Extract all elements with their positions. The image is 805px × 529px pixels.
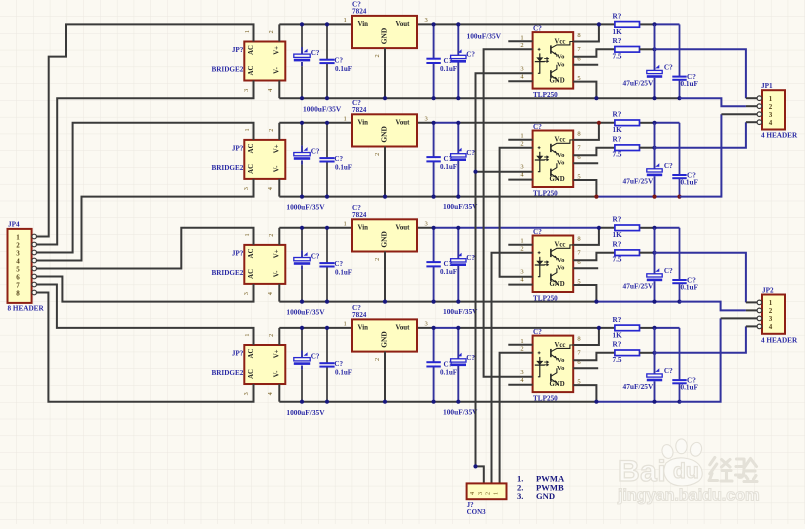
svg-text:3: 3	[520, 164, 523, 171]
svg-text:3: 3	[425, 115, 428, 122]
svg-text:0.1uF: 0.1uF	[681, 384, 699, 392]
wire JP1 pin4 stub	[746, 121, 757, 123]
svg-text:BRIDGE2: BRIDGE2	[211, 269, 243, 277]
wire bridge V- riser (channel 4)	[278, 384, 280, 402]
svg-text:8: 8	[577, 336, 580, 343]
capacitor C? 0.1uF input (channel 1)	[326, 24, 328, 59]
TLP250 internal LED (channel 3)	[539, 257, 541, 277]
wire JP1 pin3 stub	[721, 113, 757, 115]
svg-text:8: 8	[577, 32, 580, 39]
svg-text:V+: V+	[273, 144, 280, 153]
svg-text:C?: C?	[334, 155, 343, 163]
optocoupler C? TLP250 (channel 1)	[533, 32, 574, 89]
wire TLP pin 7 to R2 (channel 3)	[573, 253, 615, 261]
svg-text:Vout: Vout	[396, 325, 411, 332]
wire net PWM-A: TLP1 pin2 down to TLP4 pin3	[484, 49, 533, 377]
wire blue top rail extension (channel 4)	[655, 327, 680, 329]
junction TLP2 pin3	[473, 170, 477, 174]
svg-text:100uF/35V: 100uF/35V	[467, 32, 502, 41]
bridge rectifier JP? BRIDGE2 (channel 2)	[244, 140, 285, 179]
svg-text:Vo: Vo	[557, 54, 565, 61]
wire bridge V- riser (channel 3)	[278, 284, 280, 302]
wire bridge V- riser (channel 1)	[278, 81, 280, 99]
wire channel3 output to JP2 pin 1	[655, 253, 746, 303]
wire R2 output lead (channel 4)	[640, 352, 655, 354]
svg-text:R?: R?	[613, 341, 622, 349]
svg-text:C?: C?	[466, 354, 475, 362]
svg-text:3: 3	[243, 292, 250, 295]
wire R2 output lead (channel 3)	[640, 252, 655, 254]
wire JP2 pin2 stub	[746, 309, 757, 311]
svg-text:Vin: Vin	[358, 224, 369, 231]
wire AC2 channel2: bridge pin3 to JP4 pin4	[37, 179, 254, 261]
optocoupler C? TLP250 (channel 3)	[533, 236, 574, 293]
svg-text:2: 2	[520, 42, 523, 49]
wire regulator GND pin 2 (channel 3)	[384, 252, 386, 302]
svg-text:Vo: Vo	[557, 265, 565, 272]
wire top rail after R1 (channel 2)	[640, 122, 655, 124]
svg-text:Vcc: Vcc	[555, 137, 566, 144]
capacitor C? 0.1uF input (channel 4)	[326, 328, 328, 363]
svg-text:0.1uF: 0.1uF	[681, 283, 699, 291]
svg-text:3: 3	[243, 392, 250, 395]
svg-text:Vo: Vo	[557, 257, 565, 264]
svg-text:4: 4	[769, 323, 773, 331]
svg-text:100uF/35V: 100uF/35V	[443, 407, 478, 416]
svg-text:3: 3	[425, 17, 428, 24]
capacitor C? 1000uF/35V (channel 4)	[301, 328, 303, 351]
TLP250 internal transistors (channel 4)	[550, 349, 552, 357]
svg-text:Vo: Vo	[557, 357, 565, 364]
svg-text:BRIDGE2: BRIDGE2	[211, 66, 243, 74]
svg-text:du: du	[673, 460, 699, 483]
svg-text:C?: C?	[533, 228, 542, 236]
capacitor C? 0.1uF output (channel 1)	[433, 24, 435, 58]
svg-text:R?: R?	[613, 12, 622, 20]
svg-text:AC: AC	[248, 164, 255, 174]
svg-text:0.1uF: 0.1uF	[440, 163, 457, 171]
voltage regulator C? 7824 (channel 2)	[352, 114, 417, 146]
wire net from TLP4 pin2 down to CON3	[500, 353, 533, 484]
svg-text:47uF/25V: 47uF/25V	[623, 177, 654, 186]
svg-text:JP?: JP?	[232, 250, 244, 258]
svg-text:7824: 7824	[352, 311, 367, 319]
svg-text:1: 1	[244, 334, 251, 337]
svg-text:V-: V-	[273, 165, 280, 172]
svg-text:3: 3	[425, 321, 428, 328]
JP1 pin circles	[757, 96, 762, 101]
capacitor C? 0.1uF input (channel 2)	[326, 123, 328, 158]
wire TLP pin 7 to R2 (channel 1)	[573, 49, 615, 57]
optocoupler C? TLP250 (channel 4)	[533, 336, 574, 393]
wire bridge V+ riser (channel 4)	[278, 328, 280, 345]
capacitor C? 100uF/35V (channel 3)	[457, 228, 459, 259]
wire TLP pin 8 to Vcc rail (channel 3)	[573, 228, 599, 245]
svg-text:1: 1	[344, 17, 347, 24]
svg-text:GND: GND	[380, 28, 389, 44]
wire GND bottom rail (channel 2)	[279, 196, 596, 198]
wire TLP pin 7 to R2 (channel 4)	[573, 353, 615, 361]
svg-text:Vout: Vout	[396, 224, 411, 231]
svg-text:1000uF/35V: 1000uF/35V	[286, 408, 325, 417]
wire V+ top rail (channel 2)	[279, 122, 433, 124]
svg-text:47uF/25V: 47uF/25V	[623, 78, 654, 87]
svg-text:V-: V-	[273, 370, 280, 377]
wire GND bottom rail (channel 3)	[279, 301, 596, 303]
svg-text:4: 4	[769, 119, 773, 127]
bridge rectifier JP? BRIDGE2 (channel 4)	[244, 345, 285, 384]
svg-text:C?: C?	[533, 25, 542, 33]
wire TLP pin 1 stub (channel 1)	[508, 40, 532, 42]
svg-text:1: 1	[520, 338, 523, 345]
svg-text:TLP250: TLP250	[533, 395, 558, 403]
svg-text:C?: C?	[533, 328, 542, 336]
wire AC1 channel1: bridge pin1 to JP4 pin1	[37, 24, 254, 236]
svg-text:2: 2	[520, 245, 523, 252]
svg-text:4: 4	[267, 392, 274, 395]
svg-text:0.1uF: 0.1uF	[335, 268, 352, 276]
svg-text:Bai: Bai	[618, 455, 666, 488]
wire channel1 output to JP1 pin 1	[655, 49, 746, 98]
svg-text:7: 7	[16, 281, 20, 289]
svg-text:2: 2	[769, 103, 773, 111]
resistor R? 1K (channel 4)	[615, 325, 640, 331]
svg-text:GND: GND	[550, 176, 565, 183]
svg-text:5: 5	[16, 265, 20, 273]
svg-text:7824: 7824	[352, 211, 367, 219]
capacitor C? 0.1uF right (channel 3)	[679, 228, 681, 280]
capacitor C? 0.1uF output (channel 2)	[433, 123, 435, 157]
svg-text:JP1: JP1	[761, 82, 773, 90]
svg-text:C?: C?	[664, 64, 673, 72]
svg-text:3: 3	[520, 369, 523, 376]
svg-text:1000uF/35V: 1000uF/35V	[286, 308, 325, 317]
svg-text:1: 1	[16, 233, 20, 241]
capacitor C? 47uF/25V (channel 3)	[654, 228, 656, 274]
svg-text:8: 8	[577, 130, 580, 137]
wire R2 output lead (channel 1)	[640, 48, 655, 50]
svg-text:100uF/35V: 100uF/35V	[443, 307, 478, 316]
svg-text:C?: C?	[334, 260, 343, 268]
svg-text:7824: 7824	[352, 7, 367, 15]
svg-text:R?: R?	[613, 241, 622, 249]
svg-text:7.5: 7.5	[613, 151, 622, 159]
svg-text:47uF/25V: 47uF/25V	[623, 382, 654, 391]
wire TLP pin 6 stub (channel 4)	[573, 367, 598, 369]
svg-text:3: 3	[769, 315, 773, 323]
capacitor C? 0.1uF right (channel 4)	[679, 328, 681, 380]
wire TLP pin 4 stub (channel 4)	[508, 384, 532, 386]
svg-text:C?: C?	[664, 367, 673, 375]
capacitor C? 1000uF/35V (channel 1)	[301, 24, 303, 47]
svg-text:CON3: CON3	[467, 508, 487, 516]
svg-text:TLP250: TLP250	[533, 91, 558, 99]
svg-text:8: 8	[16, 289, 20, 297]
svg-text:2: 2	[520, 346, 523, 353]
svg-text:1: 1	[769, 95, 773, 103]
wire top rail after R1 (channel 4)	[640, 327, 655, 329]
wire channel4 GND to JP2 pin 3	[680, 318, 721, 401]
svg-text:GND: GND	[536, 491, 555, 501]
svg-text:4: 4	[16, 257, 20, 265]
JP4 pin circles	[32, 234, 37, 239]
resistor R? 1K (channel 1)	[615, 22, 640, 28]
svg-text:1: 1	[244, 30, 251, 33]
svg-text:C?: C?	[334, 56, 343, 64]
capacitor C? 47uF/25V (channel 2)	[654, 123, 656, 169]
svg-text:Vcc: Vcc	[555, 342, 566, 349]
voltage regulator C? 7824 (channel 3)	[352, 219, 417, 251]
wire V+ top rail (channel 1)	[279, 23, 615, 25]
wire AC2 channel3: bridge pin3 to JP4 pin6	[37, 277, 254, 302]
wire channel2 GND to JP1 pin 3	[680, 114, 722, 196]
svg-text:2: 2	[374, 153, 381, 156]
svg-text:1K: 1K	[613, 28, 623, 36]
svg-text:AC: AC	[248, 66, 255, 76]
svg-text:0.1uF: 0.1uF	[440, 368, 457, 376]
svg-text:1: 1	[492, 492, 499, 495]
wire blue top rail extension (channel 3)	[655, 227, 680, 229]
wire TLP2 pin3 branch	[476, 171, 533, 173]
capacitor C? 0.1uF input (channel 3)	[326, 228, 328, 263]
wire TLP pin 7 to R2 (channel 2)	[573, 148, 615, 156]
voltage regulator C? 7824 (channel 1)	[352, 16, 417, 48]
svg-text:1: 1	[769, 299, 773, 307]
wire AC1 channel2: bridge pin1 to JP4 pin3	[37, 123, 254, 253]
svg-text:R?: R?	[613, 136, 622, 144]
svg-text:V+: V+	[273, 249, 280, 258]
svg-text:AC: AC	[248, 349, 255, 359]
TLP250 internal LED (channel 4)	[539, 357, 541, 377]
svg-text:C?: C?	[466, 254, 475, 262]
wire AC2 channel4: bridge pin3 to JP4 pin8	[37, 293, 254, 402]
wire JP2 pin1 stub	[746, 301, 757, 303]
svg-text:Vo: Vo	[557, 365, 565, 372]
svg-text:Vo: Vo	[557, 160, 565, 167]
svg-text:TLP250: TLP250	[533, 189, 558, 197]
wire JP1 pin2 stub	[746, 105, 757, 107]
svg-text:2: 2	[268, 30, 275, 33]
capacitor C? 1000uF/35V (channel 3)	[301, 228, 303, 251]
svg-text:7.5: 7.5	[613, 256, 622, 264]
svg-text:1: 1	[520, 238, 523, 245]
svg-text:V+: V+	[273, 349, 280, 358]
wire TLP pin 4 stub (channel 2)	[508, 179, 532, 181]
capacitor C? 0.1uF right (channel 1)	[679, 24, 681, 76]
svg-text:3: 3	[16, 249, 20, 257]
connector JP2 4 HEADER	[762, 295, 785, 334]
svg-text:Vcc: Vcc	[555, 242, 566, 249]
wire JP2 pin3 stub	[721, 317, 758, 319]
wire channel2 output to JP1 pin 4	[655, 122, 746, 148]
svg-text:1K: 1K	[613, 331, 623, 339]
svg-text:2: 2	[374, 258, 381, 261]
svg-text:0.1uF: 0.1uF	[440, 65, 457, 73]
svg-text:2: 2	[374, 54, 381, 57]
wire JP2 pin4 stub	[746, 325, 757, 327]
svg-text:C?: C?	[311, 49, 320, 57]
svg-text:Vin: Vin	[358, 325, 369, 332]
wire GND bottom rail (channel 1)	[279, 97, 679, 99]
svg-text:JP?: JP?	[232, 145, 244, 153]
capacitor C? 0.1uF output (channel 4)	[433, 328, 435, 362]
svg-text:C?: C?	[664, 162, 673, 170]
svg-text:AC: AC	[248, 369, 255, 379]
svg-text:C?: C?	[311, 252, 320, 260]
svg-text:3: 3	[520, 65, 523, 72]
wire bridge V+ riser (channel 1)	[278, 24, 280, 41]
voltage regulator C? 7824 (channel 4)	[352, 319, 417, 351]
svg-text:BRIDGE2: BRIDGE2	[211, 164, 243, 172]
wire TLP pin 6 stub (channel 2)	[573, 162, 598, 164]
svg-text:Vcc: Vcc	[555, 38, 566, 45]
wire AC2 channel1: bridge pin3 to JP4 pin2	[37, 81, 254, 245]
wire TLP pin 5 to GND (channel 4)	[573, 385, 596, 402]
wire JP1 pin1 stub	[746, 97, 757, 99]
svg-text:2: 2	[374, 358, 381, 361]
svg-text:4: 4	[267, 89, 274, 92]
svg-text:R?: R?	[613, 316, 622, 324]
svg-text:GND: GND	[550, 381, 565, 388]
wire bridge V+ riser (channel 3)	[278, 228, 280, 245]
junction GND jog at CON3	[473, 464, 477, 468]
svg-text:C?: C?	[311, 353, 320, 361]
svg-text:1: 1	[344, 115, 347, 122]
svg-text:0.1uF: 0.1uF	[335, 163, 352, 171]
resistor R? 7.5 (channel 1)	[615, 47, 640, 53]
svg-text:3: 3	[425, 220, 428, 227]
svg-text:8: 8	[577, 235, 580, 242]
svg-text:Vo: Vo	[557, 152, 565, 159]
svg-text:2: 2	[520, 140, 523, 147]
svg-text:2: 2	[268, 129, 275, 132]
svg-text:3: 3	[520, 269, 523, 276]
wire net from TLP3 pin2 down to CON3	[492, 253, 533, 484]
svg-text:AC: AC	[248, 248, 255, 258]
resistor R? 1K (channel 2)	[615, 120, 640, 126]
resistor R? 7.5 (channel 2)	[615, 145, 640, 151]
wire bridge V- riser (channel 2)	[278, 179, 280, 197]
connector JP4 8 HEADER	[8, 229, 32, 303]
svg-text:7.5: 7.5	[613, 52, 622, 60]
wire TLP pin 5 to GND (channel 1)	[573, 82, 596, 99]
svg-text:1: 1	[520, 34, 523, 41]
svg-text:GND: GND	[550, 281, 565, 288]
svg-text:JP?: JP?	[232, 350, 244, 358]
svg-text:R?: R?	[613, 216, 622, 224]
TLP250 internal transistors (channel 2)	[550, 144, 552, 152]
svg-text:1: 1	[344, 220, 347, 227]
wire bridge V+ riser (channel 2)	[278, 123, 280, 140]
wire blue top rail extension (channel 1)	[655, 23, 680, 25]
svg-text:4: 4	[267, 292, 274, 295]
svg-text:4: 4	[267, 187, 274, 190]
resistor R? 7.5 (channel 4)	[615, 350, 640, 356]
svg-text:C?: C?	[311, 147, 320, 155]
wire R2 output lead (channel 2)	[640, 147, 655, 149]
wire V+ top rail (channel 4)	[279, 327, 433, 329]
svg-text:0.1uF: 0.1uF	[335, 65, 352, 73]
wire channel4 output to JP2 pin 4	[655, 326, 746, 352]
wire TLP pin 4 stub (channel 3)	[508, 284, 532, 286]
wire TLP pin 5 to GND (channel 2)	[573, 180, 596, 197]
wire TLP pin 8 to Vcc rail (channel 1)	[573, 24, 599, 41]
wire TLP pin 5 to GND (channel 3)	[573, 285, 596, 302]
svg-text:V+: V+	[273, 46, 280, 55]
connector J? CON3	[467, 483, 507, 499]
svg-text:6: 6	[16, 273, 20, 281]
svg-text:BRIDGE2: BRIDGE2	[211, 369, 243, 377]
bridge rectifier JP? BRIDGE2 (channel 3)	[244, 245, 285, 284]
svg-text:3: 3	[243, 187, 250, 190]
svg-text:V-: V-	[273, 270, 280, 277]
svg-text:8 HEADER: 8 HEADER	[8, 305, 45, 313]
connector JP1 4 HEADER	[762, 90, 785, 129]
optocoupler C? TLP250 (channel 2)	[533, 131, 574, 188]
svg-text:TLP250: TLP250	[533, 294, 558, 302]
svg-text:2: 2	[769, 307, 773, 315]
svg-text:1K: 1K	[613, 231, 623, 239]
wire regulator GND pin 2 (channel 2)	[384, 147, 386, 197]
wire top rail after R1 (channel 1)	[640, 23, 655, 25]
svg-text:3: 3	[769, 111, 773, 119]
svg-text:4: 4	[469, 492, 476, 495]
wire channel1 GND to JP1 pin 2	[680, 98, 746, 106]
svg-text:C?: C?	[533, 123, 542, 131]
svg-text:R?: R?	[613, 37, 622, 45]
wire regulator GND pin 2 (channel 4)	[384, 352, 386, 402]
watermark paw icon	[660, 439, 703, 486]
svg-text:2: 2	[268, 234, 275, 237]
svg-text:1K: 1K	[613, 126, 623, 134]
svg-text:R?: R?	[613, 111, 622, 119]
svg-text:JP2: JP2	[762, 286, 774, 294]
svg-text:JP4: JP4	[8, 221, 20, 229]
svg-text:GND: GND	[380, 231, 389, 247]
bridge rectifier JP? BRIDGE2 (channel 1)	[244, 42, 285, 81]
wire TLP pin 6 stub (channel 3)	[573, 267, 598, 269]
svg-text:1000uF/35V: 1000uF/35V	[286, 203, 325, 212]
svg-text:100uF/35V: 100uF/35V	[443, 202, 478, 211]
capacitor C? 47uF/25V (channel 4)	[654, 328, 656, 374]
svg-text:3.: 3.	[517, 491, 523, 501]
svg-text:AC: AC	[248, 269, 255, 279]
wire TLP pin 1 stub (channel 2)	[508, 139, 532, 141]
svg-text:V-: V-	[273, 66, 280, 73]
svg-text:GND: GND	[550, 78, 565, 85]
svg-text:GND: GND	[380, 126, 389, 142]
svg-text:C?: C?	[466, 149, 475, 157]
svg-text:7824: 7824	[352, 106, 367, 114]
TLP250 internal transistors (channel 1)	[550, 45, 552, 53]
TLP250 internal LED (channel 1)	[539, 53, 541, 73]
svg-text:0.1uF: 0.1uF	[440, 268, 457, 276]
svg-text:GND: GND	[380, 331, 389, 347]
svg-text:3: 3	[477, 492, 484, 495]
wire channel3 GND to JP2 pin 2	[680, 302, 746, 311]
capacitor C? 0.1uF right (channel 2)	[679, 123, 681, 175]
wire net PWM-B upper: TLP2 pin2 down to TLP3 pin3	[500, 148, 533, 277]
resistor R? 7.5 (channel 3)	[615, 250, 640, 256]
svg-text:1: 1	[244, 233, 251, 236]
svg-text:2: 2	[16, 241, 20, 249]
svg-text:1000uF/35V: 1000uF/35V	[303, 105, 342, 114]
svg-text:0.1uF: 0.1uF	[681, 178, 699, 186]
wire net cathode/GND: TLP1 pin3, TLP2 pin3 down to CON3	[476, 73, 533, 483]
svg-text:1: 1	[244, 128, 251, 131]
svg-text:Vin: Vin	[358, 119, 369, 126]
capacitor C? 1000uF/35V (channel 2)	[301, 123, 303, 146]
